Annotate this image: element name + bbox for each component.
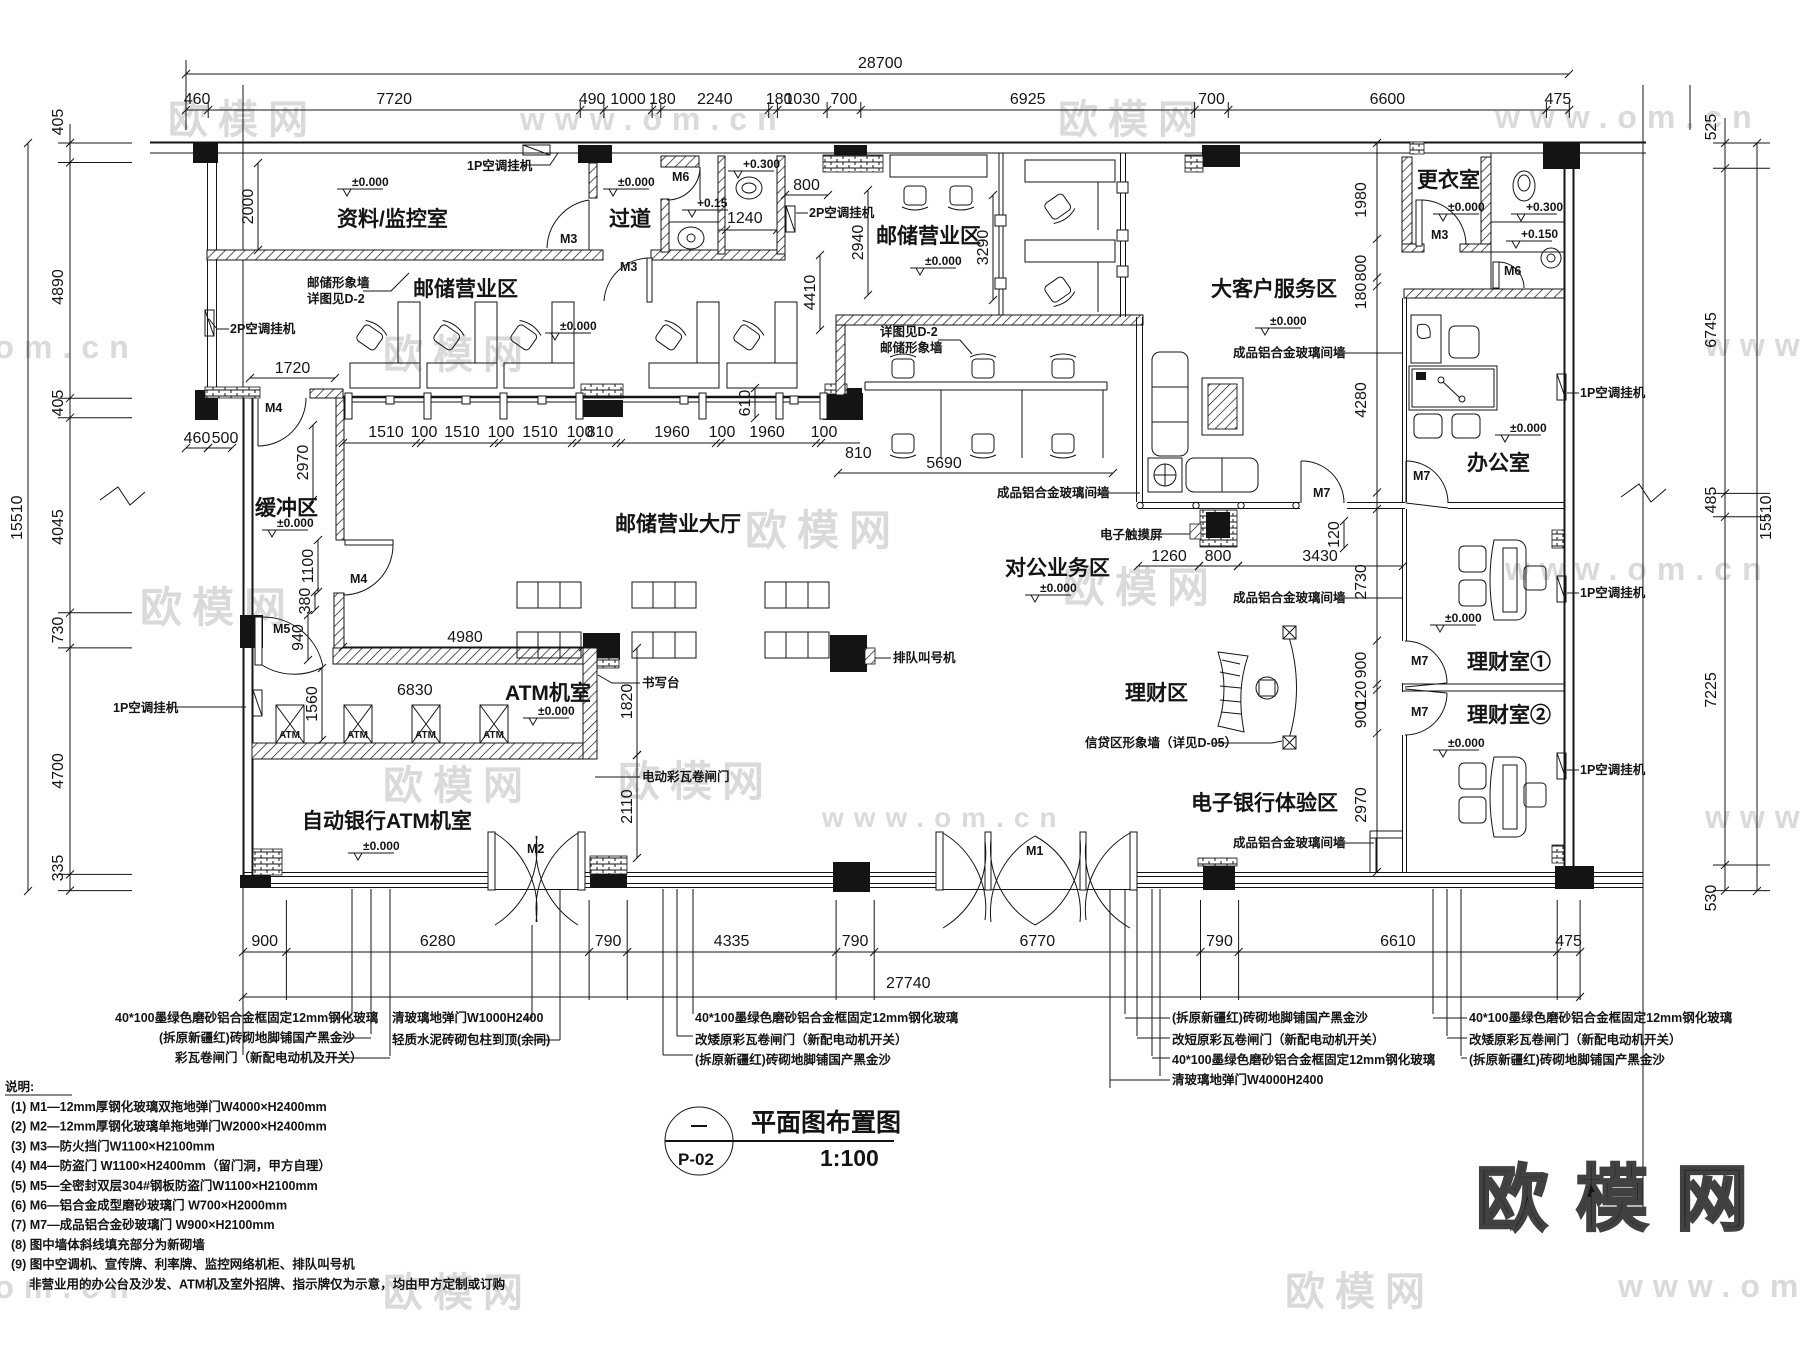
financial area curved desk xyxy=(1218,652,1248,732)
svg-text:1030: 1030 xyxy=(784,91,820,108)
svg-text:335: 335 xyxy=(50,855,67,882)
svg-text:www.om.cn: www.om.cn xyxy=(1617,1268,1800,1304)
right dimension chain xyxy=(1703,114,1770,912)
svg-text:+0.15: +0.15 xyxy=(697,196,728,210)
svg-text:100: 100 xyxy=(411,424,438,441)
svg-text:邮储营业大厅: 邮储营业大厅 xyxy=(615,512,741,536)
VIP sofa set xyxy=(1152,352,1188,456)
svg-text:成品铝合金玻璃间墙: 成品铝合金玻璃间墙 xyxy=(1233,590,1346,605)
svg-text:810: 810 xyxy=(845,445,872,462)
svg-text:1980: 1980 xyxy=(1353,182,1370,218)
svg-text:180: 180 xyxy=(1353,283,1370,310)
feature wall arc xyxy=(1288,634,1297,742)
svg-text:M7: M7 xyxy=(1411,705,1428,719)
svg-text:成品铝合金玻璃间墙: 成品铝合金玻璃间墙 xyxy=(1233,835,1346,850)
svg-text:2000: 2000 xyxy=(240,189,257,225)
svg-text:700: 700 xyxy=(831,91,858,108)
svg-text:欧模网: 欧模网 xyxy=(745,507,901,554)
locker room basin xyxy=(1541,248,1561,268)
svg-text:±0.000: ±0.000 xyxy=(352,175,389,189)
svg-text:2730: 2730 xyxy=(1353,564,1370,600)
svg-text:1510: 1510 xyxy=(444,424,480,441)
svg-text:1820: 1820 xyxy=(619,684,636,720)
svg-text:6610: 6610 xyxy=(1380,933,1416,950)
svg-text:www.om.cn: www.om.cn xyxy=(1494,99,1762,135)
svg-text:180: 180 xyxy=(649,91,676,108)
svg-text:790: 790 xyxy=(1206,933,1233,950)
svg-text:欧模网: 欧模网 xyxy=(1058,98,1208,142)
svg-text:15510: 15510 xyxy=(1758,495,1775,540)
brick hatch patches (existing masonry) xyxy=(205,387,260,398)
door M6 washroom xyxy=(667,167,700,200)
svg-text:办公室: 办公室 xyxy=(1467,451,1530,475)
break symbol left xyxy=(100,487,145,505)
svg-text:530: 530 xyxy=(1703,885,1720,912)
level markers xyxy=(337,175,389,196)
left boundary line xyxy=(242,85,244,1055)
door thresholds xyxy=(488,889,1137,891)
svg-text:排队叫号机: 排队叫号机 xyxy=(893,650,956,665)
door M4 top of buffer zone xyxy=(257,399,259,446)
svg-text:790: 790 xyxy=(595,933,622,950)
svg-text:4045: 4045 xyxy=(50,509,67,545)
svg-text:±0.000: ±0.000 xyxy=(1270,314,1307,328)
bottom dimension chain xyxy=(239,900,1584,1000)
touch screen symbol xyxy=(1190,524,1201,539)
svg-text:100: 100 xyxy=(488,424,515,441)
svg-text:欧模网: 欧模网 xyxy=(1476,1160,1776,1240)
svg-text:1240: 1240 xyxy=(727,210,763,227)
svg-text:810: 810 xyxy=(587,424,614,441)
svg-text:清玻璃地弹门W4000H2400: 清玻璃地弹门W4000H2400 xyxy=(1172,1072,1323,1087)
svg-text:邮储营业区: 邮储营业区 xyxy=(413,277,518,301)
svg-text:±0.000: ±0.000 xyxy=(1448,200,1485,214)
svg-text:M7: M7 xyxy=(1313,486,1330,500)
svg-text:1560: 1560 xyxy=(304,686,321,722)
svg-text:1260: 1260 xyxy=(1151,548,1187,565)
svg-text:清玻璃地弹门W1000H2400: 清玻璃地弹门W1000H2400 xyxy=(392,1010,543,1025)
svg-text:6600: 6600 xyxy=(1370,91,1406,108)
right exterior wall xyxy=(1565,153,1574,866)
bottom exterior wall with storefront xyxy=(243,873,488,888)
door M4 buffer zone xyxy=(345,540,393,545)
svg-text:900: 900 xyxy=(1353,702,1370,729)
svg-text:(拆原新疆红)砖砌地脚铺国产黑金沙: (拆原新疆红)砖砌地脚铺国产黑金沙 xyxy=(1469,1052,1665,1067)
svg-text:±0.000: ±0.000 xyxy=(538,704,575,718)
svg-text:100: 100 xyxy=(709,424,736,441)
svg-text:电动彩瓦卷闸门: 电动彩瓦卷闸门 xyxy=(642,769,730,784)
svg-text:700: 700 xyxy=(1198,91,1225,108)
svg-text:500: 500 xyxy=(212,430,239,447)
left dimension chain xyxy=(50,109,132,895)
svg-text:405: 405 xyxy=(50,109,67,136)
svg-text:±0.000: ±0.000 xyxy=(277,516,314,530)
svg-text:1:100: 1:100 xyxy=(820,1145,879,1171)
teller counter line xyxy=(343,396,838,399)
svg-text:1720: 1720 xyxy=(275,360,311,377)
wall between consulting room 1 and 2 xyxy=(1403,684,1564,691)
interior dimensions xyxy=(240,159,262,254)
svg-text:±0.000: ±0.000 xyxy=(1448,736,1485,750)
svg-text:详图见D-2: 详图见D-2 xyxy=(880,324,938,339)
svg-text:120: 120 xyxy=(1326,521,1343,548)
right overall dimension 15510 xyxy=(1753,139,1775,895)
door M3 corridor xyxy=(547,200,589,248)
svg-text:3430: 3430 xyxy=(1302,548,1338,565)
e-banking glass corner xyxy=(1370,831,1402,872)
svg-text:轻质水泥砖砌包柱到顶(余同): 轻质水泥砖砌包柱到顶(余同) xyxy=(392,1032,550,1047)
svg-text:730: 730 xyxy=(50,617,67,644)
toilet area right partitions xyxy=(669,153,1564,289)
svg-text:理财室①: 理财室① xyxy=(1467,650,1551,674)
desk cluster top middle xyxy=(890,155,987,177)
office furniture xyxy=(1411,315,1441,363)
left overall dimension 15510 xyxy=(9,139,32,895)
svg-text:(8) 图中墙体斜线填充部分为新砌墙: (8) 图中墙体斜线填充部分为新砌墙 xyxy=(11,1237,205,1252)
svg-text:±0.000: ±0.000 xyxy=(925,254,962,268)
svg-text:100: 100 xyxy=(811,424,838,441)
bottom overall dimension 27740 xyxy=(239,975,1584,1001)
title block P-02 xyxy=(665,1107,733,1175)
svg-text:(2) M2—12mm厚钢化玻璃单拖地弹门W2000×H24: (2) M2—12mm厚钢化玻璃单拖地弹门W2000×H2400mm xyxy=(11,1119,327,1134)
svg-text:M4: M4 xyxy=(265,401,282,415)
consulting room 1 desk set xyxy=(1459,540,1546,620)
mirror / picture xyxy=(1202,378,1243,435)
svg-text:±0.000: ±0.000 xyxy=(618,175,655,189)
structural columns (solid) xyxy=(193,143,218,163)
break symbol right xyxy=(1621,484,1666,502)
svg-text:790: 790 xyxy=(842,933,869,950)
door M1 double swing glass doors xyxy=(936,832,943,890)
svg-text:欧模网: 欧模网 xyxy=(1285,1270,1435,1314)
svg-text:4335: 4335 xyxy=(714,933,750,950)
svg-text:M1: M1 xyxy=(1026,844,1043,858)
svg-text:ATM: ATM xyxy=(483,730,504,741)
svg-text:M2: M2 xyxy=(527,842,544,856)
svg-text:平面图布置图: 平面图布置图 xyxy=(751,1108,901,1137)
door M3 archive room xyxy=(604,258,650,301)
svg-text:M6: M6 xyxy=(672,170,689,184)
svg-text:(6) M6—铝合金成型磨砂玻璃门 W700×H200: (6) M6—铝合金成型磨砂玻璃门 W700×H2000mm xyxy=(11,1198,287,1213)
svg-text:940: 940 xyxy=(290,624,307,651)
svg-text:成品铝合金玻璃间墙: 成品铝合金玻璃间墙 xyxy=(1233,345,1346,360)
svg-text:理财区: 理财区 xyxy=(1125,682,1188,705)
svg-text:6925: 6925 xyxy=(1010,91,1046,108)
svg-text:欧模网: 欧模网 xyxy=(383,764,533,808)
svg-text:改矮原彩瓦卷闸门（新配电动机开关）: 改矮原彩瓦卷闸门（新配电动机开关） xyxy=(695,1032,908,1047)
corporate area dimension row xyxy=(1134,548,1203,570)
door M3 locker room xyxy=(1416,200,1422,246)
door M2 single swing glass door xyxy=(488,832,495,890)
svg-text:(5) M5—全密封双层304#钢板防盗门W1100×H21: (5) M5—全密封双层304#钢板防盗门W1100×H2100mm xyxy=(11,1178,318,1193)
right boundary lines xyxy=(1642,85,1644,1210)
svg-text:3290: 3290 xyxy=(975,230,992,266)
svg-text:(拆原新疆红)砖砌地脚铺国产黑金沙: (拆原新疆红)砖砌地脚铺国产黑金沙 xyxy=(1172,1010,1368,1025)
svg-text:2240: 2240 xyxy=(697,91,733,108)
top exterior wall xyxy=(150,142,1646,144)
svg-text:7720: 7720 xyxy=(376,91,412,108)
svg-text:5690: 5690 xyxy=(926,455,962,472)
top dimension chain xyxy=(182,91,1573,118)
svg-text:475: 475 xyxy=(1545,91,1572,108)
svg-text:(3) M3—防火挡门W1100×H2100mm: (3) M3—防火挡门W1100×H2100mm xyxy=(11,1138,215,1153)
partition postal business area right xyxy=(999,153,1003,315)
door M7 consulting room 2 xyxy=(1405,689,1447,735)
svg-text:2P空调挂机: 2P空调挂机 xyxy=(809,205,875,220)
svg-text:(9) 图中空调机、宣传牌、利率牌、监控网络机柜、排队叫号机: (9) 图中空调机、宣传牌、利率牌、监控网络机柜、排队叫号机 xyxy=(11,1257,355,1272)
svg-text:490: 490 xyxy=(579,91,606,108)
glass wall between postal area and VIP area xyxy=(1121,153,1126,317)
svg-text:成品铝合金玻璃间墙: 成品铝合金玻璃间墙 xyxy=(997,485,1110,500)
svg-text:4890: 4890 xyxy=(50,269,67,305)
svg-text:40*100墨绿色磨砂铝合金框固定12mm钢化玻璃: 40*100墨绿色磨砂铝合金框固定12mm钢化玻璃 xyxy=(1172,1052,1436,1067)
door M7 consulting room 1 xyxy=(1405,641,1447,687)
svg-text:1P空调挂机: 1P空调挂机 xyxy=(1580,585,1646,600)
right interior dimension chain xyxy=(1373,139,1381,876)
svg-text:1000: 1000 xyxy=(610,91,646,108)
svg-text:详图见D-2: 详图见D-2 xyxy=(307,291,365,306)
svg-text:M4: M4 xyxy=(350,572,367,586)
svg-text:ATM机室: ATM机室 xyxy=(505,681,591,705)
svg-text:900: 900 xyxy=(1353,652,1370,679)
svg-text:1510: 1510 xyxy=(368,424,404,441)
svg-text:1P空调挂机: 1P空调挂机 xyxy=(1580,385,1646,400)
svg-text:±0.000: ±0.000 xyxy=(1445,611,1482,625)
svg-text:460: 460 xyxy=(184,91,211,108)
wash basin corridor xyxy=(678,227,704,249)
svg-text:40*100墨绿色磨砂铝合金框固定12mm钢化玻璃: 40*100墨绿色磨砂铝合金框固定12mm钢化玻璃 xyxy=(1469,1010,1733,1025)
teller partition dimension row xyxy=(339,439,860,447)
svg-text:邮储营业区: 邮储营业区 xyxy=(876,224,981,248)
svg-text:自动银行ATM机室: 自动银行ATM机室 xyxy=(302,809,472,833)
svg-text:邮储形象墙: 邮储形象墙 xyxy=(880,340,943,355)
svg-text:理财室②: 理财室② xyxy=(1467,703,1551,727)
svg-text:2P空调挂机: 2P空调挂机 xyxy=(230,321,296,336)
svg-text:P-02: P-02 xyxy=(678,1150,714,1169)
svg-text:6830: 6830 xyxy=(397,682,433,699)
svg-text:±0.000: ±0.000 xyxy=(1510,421,1547,435)
svg-text:更衣室: 更衣室 xyxy=(1417,168,1480,192)
svg-text:7225: 7225 xyxy=(1703,672,1720,708)
svg-text:800: 800 xyxy=(793,177,820,194)
svg-text:4410: 4410 xyxy=(802,275,819,311)
svg-text:2110: 2110 xyxy=(619,789,636,824)
svg-text:1100: 1100 xyxy=(300,549,317,584)
svg-text:www.om: www.om xyxy=(1704,799,1800,835)
svg-text:M5: M5 xyxy=(273,622,290,636)
svg-text:2970: 2970 xyxy=(295,445,312,481)
svg-text:4980: 4980 xyxy=(447,629,483,646)
svg-text:ATM: ATM xyxy=(415,730,436,741)
corporate business area desks xyxy=(865,382,1107,458)
waiting benches xyxy=(517,582,581,608)
svg-text:对公业务区: 对公业务区 xyxy=(1005,556,1110,580)
svg-text:(1) M1—12mm厚钢化玻璃双拖地弹门W4000×H24: (1) M1—12mm厚钢化玻璃双拖地弹门W4000×H2400mm xyxy=(11,1099,327,1114)
new masonry walls (diagonal hatch) xyxy=(207,250,603,260)
teller workstations xyxy=(350,302,420,388)
svg-text:6280: 6280 xyxy=(420,933,456,950)
VIP area / office bottom wall with glass posts xyxy=(1138,503,1564,509)
svg-text:1960: 1960 xyxy=(654,424,690,441)
svg-text:+0.300: +0.300 xyxy=(743,157,780,171)
door M6 toilet right xyxy=(1493,262,1499,288)
svg-text:电子触摸屏: 电子触摸屏 xyxy=(1100,527,1163,542)
annotation texts with leader lines xyxy=(467,153,558,173)
leader lines to bottom annotations xyxy=(351,889,353,1014)
svg-text:380: 380 xyxy=(297,588,314,615)
svg-text:(7) M7—成品铝合金砂玻璃门 W900×H21: (7) M7—成品铝合金砂玻璃门 W900×H2100mm xyxy=(11,1217,275,1232)
svg-text:±0.000: ±0.000 xyxy=(1040,581,1077,595)
top overall dimension 28700 xyxy=(182,55,1573,78)
svg-text:www.om.cn: www.om.cn xyxy=(1504,551,1772,587)
svg-text:40*100墨绿色磨砂铝合金框固定12mm钢化玻璃: 40*100墨绿色磨砂铝合金框固定12mm钢化玻璃 xyxy=(695,1010,959,1025)
svg-text:非营业用的办公台及沙发、ATM机及室外招牌、指示牌仅为示意，: 非营业用的办公台及沙发、ATM机及室外招牌、指示牌仅为示意，均由甲方定制或订购 xyxy=(29,1276,505,1291)
svg-text:±0.000: ±0.000 xyxy=(363,839,400,853)
svg-text:M7: M7 xyxy=(1411,654,1428,668)
svg-text:www.om.cn: www.om.cn xyxy=(0,329,139,365)
svg-text:485: 485 xyxy=(1703,487,1720,514)
svg-text:说明:: 说明: xyxy=(5,1079,34,1094)
svg-text:M7: M7 xyxy=(1413,469,1430,483)
svg-text:900: 900 xyxy=(251,933,278,950)
svg-text:525: 525 xyxy=(1703,114,1720,141)
svg-text:大客户服务区: 大客户服务区 xyxy=(1211,277,1337,301)
svg-text:2970: 2970 xyxy=(1353,787,1370,823)
svg-text:1960: 1960 xyxy=(749,424,785,441)
svg-text:6770: 6770 xyxy=(1020,933,1056,950)
svg-text:27740: 27740 xyxy=(886,975,931,992)
svg-text:M3: M3 xyxy=(620,260,637,274)
svg-text:6745: 6745 xyxy=(1703,312,1720,348)
svg-text:(拆原新疆红)砖砌地脚铺国产黑金沙: (拆原新疆红)砖砌地脚铺国产黑金沙 xyxy=(159,1030,355,1045)
door M7 VIP service area xyxy=(1300,461,1302,503)
consulting rooms glass wall xyxy=(1403,509,1407,872)
svg-text:邮储形象墙: 邮储形象墙 xyxy=(307,275,370,290)
svg-text:改短原彩瓦卷闸门（新配电动机开关）: 改短原彩瓦卷闸门（新配电动机开关） xyxy=(1172,1032,1385,1047)
svg-text:www.om.cn: www.om.cn xyxy=(821,802,1067,833)
svg-text:28700: 28700 xyxy=(858,55,903,72)
svg-text:ATM: ATM xyxy=(279,730,300,741)
svg-text:改矮原彩瓦卷闸门（新配电动机开关）: 改矮原彩瓦卷闸门（新配电动机开关） xyxy=(1469,1032,1682,1047)
svg-text:+0.150: +0.150 xyxy=(1521,227,1558,241)
svg-text:M3: M3 xyxy=(1431,228,1448,242)
svg-text:电子银行体验区: 电子银行体验区 xyxy=(1191,791,1338,815)
svg-text:±0.000: ±0.000 xyxy=(560,319,597,333)
svg-text:2940: 2940 xyxy=(850,225,867,261)
svg-text:书写台: 书写台 xyxy=(642,675,680,690)
svg-text:M6: M6 xyxy=(1504,264,1521,278)
locker room toilet xyxy=(1513,171,1535,201)
svg-text:+0.300: +0.300 xyxy=(1526,200,1563,214)
VIP area left wall xyxy=(1137,317,1143,502)
office left glass wall xyxy=(1403,298,1407,502)
left wall of archive room xyxy=(208,163,217,393)
air conditioner units xyxy=(523,145,550,155)
svg-text:460: 460 xyxy=(184,430,211,447)
workstations postal area right xyxy=(1025,160,1115,230)
ATM machines xyxy=(276,705,304,743)
svg-text:15510: 15510 xyxy=(9,495,26,540)
svg-text:资料/监控室: 资料/监控室 xyxy=(337,207,448,231)
left exterior wall xyxy=(244,397,253,888)
svg-text:(拆原新疆红)砖砌地脚铺国产黑金沙: (拆原新疆红)砖砌地脚铺国产黑金沙 xyxy=(695,1052,891,1067)
svg-text:475: 475 xyxy=(1555,933,1582,950)
squat toilet top xyxy=(736,177,762,199)
svg-text:(4) M4—防盗门 W1100×H2400mm（留门洞，: (4) M4—防盗门 W1100×H2400mm（留门洞，甲方自理） xyxy=(11,1158,331,1173)
svg-text:4700: 4700 xyxy=(50,753,67,789)
svg-text:1510: 1510 xyxy=(522,424,558,441)
svg-text:800: 800 xyxy=(1353,255,1370,282)
svg-text:405: 405 xyxy=(50,390,67,417)
svg-text:610: 610 xyxy=(737,390,754,417)
svg-text:ATM: ATM xyxy=(347,730,368,741)
svg-text:1P空调挂机: 1P空调挂机 xyxy=(1580,762,1646,777)
svg-text:M3: M3 xyxy=(560,232,577,246)
door M7 office xyxy=(1406,461,1448,503)
svg-text:过道: 过道 xyxy=(609,207,651,231)
svg-text:800: 800 xyxy=(1205,548,1232,565)
queue number machine xyxy=(865,648,875,664)
svg-text:4280: 4280 xyxy=(1353,382,1370,418)
door M5 buffer zone xyxy=(255,617,262,665)
